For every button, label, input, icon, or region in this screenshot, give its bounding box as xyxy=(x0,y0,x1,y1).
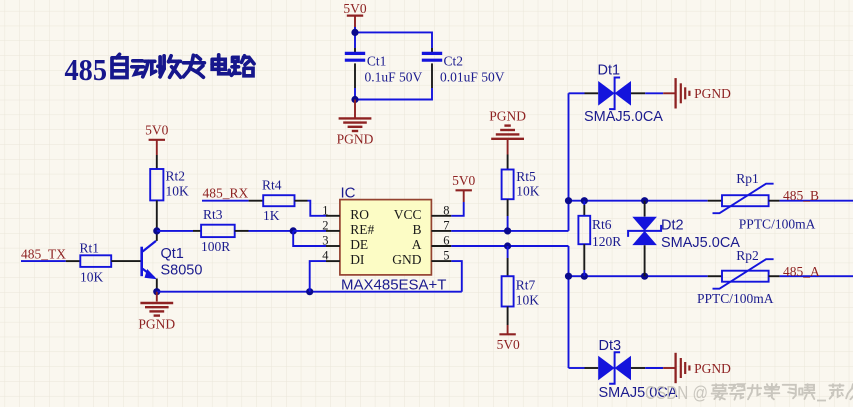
svg-text:10K: 10K xyxy=(516,292,540,307)
svg-text:Dt3: Dt3 xyxy=(599,338,622,354)
svg-text:3: 3 xyxy=(322,234,328,248)
svg-text:SMAJ5.0CA: SMAJ5.0CA xyxy=(584,109,663,125)
svg-text:120R: 120R xyxy=(592,234,621,249)
svg-text:5: 5 xyxy=(443,249,449,263)
svg-text:2: 2 xyxy=(322,218,328,232)
svg-text:485_TX: 485_TX xyxy=(21,246,66,261)
svg-text:7: 7 xyxy=(443,218,449,232)
svg-text:DI: DI xyxy=(350,252,365,267)
svg-text:PGND: PGND xyxy=(489,108,526,123)
svg-text:5V0: 5V0 xyxy=(343,1,366,16)
svg-text:Ct1: Ct1 xyxy=(367,53,387,68)
svg-text:RE#: RE# xyxy=(350,222,374,237)
svg-text:Rt5: Rt5 xyxy=(516,169,536,184)
svg-text:PGND: PGND xyxy=(337,132,374,147)
svg-text:Rt4: Rt4 xyxy=(262,178,282,193)
svg-text:485_A: 485_A xyxy=(783,264,820,279)
svg-text:CSDN @: CSDN @ xyxy=(645,383,708,403)
svg-text:8: 8 xyxy=(443,203,449,217)
svg-text:GND: GND xyxy=(392,252,421,267)
svg-text:B: B xyxy=(412,222,421,237)
svg-text:1: 1 xyxy=(322,203,328,217)
svg-text:0.01uF 50V: 0.01uF 50V xyxy=(440,69,505,84)
svg-text:Qt1: Qt1 xyxy=(161,246,184,262)
svg-text:Rt2: Rt2 xyxy=(166,169,186,184)
svg-text:4: 4 xyxy=(322,249,329,263)
svg-text:10K: 10K xyxy=(516,184,540,199)
svg-text:5V0: 5V0 xyxy=(452,173,475,188)
svg-text:5V0: 5V0 xyxy=(497,337,520,352)
svg-text:DE: DE xyxy=(350,237,368,252)
svg-text:Dt2: Dt2 xyxy=(661,218,684,234)
svg-text:PGND: PGND xyxy=(694,361,731,376)
svg-text:Rt1: Rt1 xyxy=(80,240,100,255)
svg-text:485_B: 485_B xyxy=(783,188,819,203)
svg-text:Rt3: Rt3 xyxy=(203,207,223,222)
svg-text:Rp1: Rp1 xyxy=(736,171,759,186)
svg-text:485: 485 xyxy=(65,52,108,87)
svg-text:5V0: 5V0 xyxy=(145,123,168,138)
svg-text:Rt6: Rt6 xyxy=(592,217,612,232)
svg-text:PPTC/100mA: PPTC/100mA xyxy=(697,291,774,306)
svg-text:RO: RO xyxy=(350,207,369,222)
svg-text:MAX485ESA+T: MAX485ESA+T xyxy=(341,276,446,293)
svg-text:10K: 10K xyxy=(80,269,104,284)
svg-text:485_RX: 485_RX xyxy=(203,186,249,201)
svg-text:SMAJ5.0CA: SMAJ5.0CA xyxy=(661,235,740,251)
svg-text:6: 6 xyxy=(443,234,449,248)
svg-text:Rt7: Rt7 xyxy=(516,277,536,292)
svg-text:VCC: VCC xyxy=(394,207,422,222)
svg-text:A: A xyxy=(412,237,422,252)
svg-text:0.1uF 50V: 0.1uF 50V xyxy=(365,69,423,84)
svg-text:IC: IC xyxy=(341,185,356,202)
svg-text:Ct2: Ct2 xyxy=(444,53,464,68)
svg-text:100R: 100R xyxy=(201,239,230,254)
svg-text:PGND: PGND xyxy=(138,316,175,331)
svg-text:PPTC/100mA: PPTC/100mA xyxy=(739,217,816,232)
svg-text:S8050: S8050 xyxy=(161,263,203,279)
svg-text:PGND: PGND xyxy=(694,86,731,101)
svg-text:1K: 1K xyxy=(263,208,280,223)
svg-text:Dt1: Dt1 xyxy=(598,63,621,79)
svg-text:10K: 10K xyxy=(166,183,190,198)
